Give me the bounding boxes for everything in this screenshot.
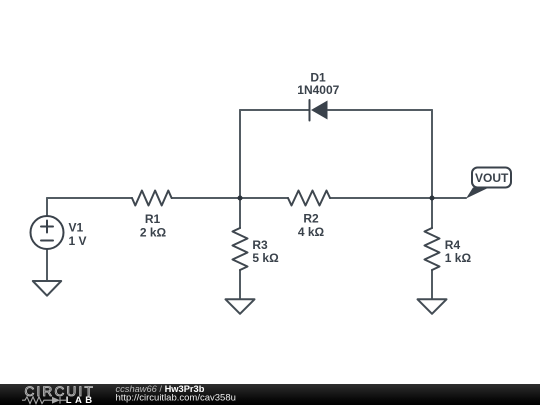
wire: R4 bottom to ground bbox=[431, 270, 433, 299]
svg-text:1 kΩ: 1 kΩ bbox=[445, 251, 472, 265]
svg-text:LAB: LAB bbox=[66, 395, 96, 405]
wire: main rail V1 to R1 left bbox=[47, 197, 132, 199]
ground for V1 bbox=[33, 281, 61, 296]
ground for R4 bbox=[418, 299, 447, 314]
net flag VOUT bbox=[466, 168, 511, 199]
junction node VOUT bbox=[430, 196, 435, 201]
wire: node VOUT to net flag bbox=[432, 197, 466, 199]
wire: R2 right to node VOUT bbox=[330, 197, 432, 199]
wire: top rail to D1 cathode bbox=[240, 109, 309, 111]
svg-text:4 kΩ: 4 kΩ bbox=[298, 225, 325, 239]
resistor R1 bbox=[132, 191, 172, 206]
junction node A bbox=[238, 196, 243, 201]
svg-text:VOUT: VOUT bbox=[475, 171, 509, 185]
svg-text:http://circuitlab.com/cav358u: http://circuitlab.com/cav358u bbox=[116, 392, 236, 403]
svg-text:R1: R1 bbox=[145, 212, 161, 226]
wire: V1 bottom to ground bbox=[46, 249, 48, 281]
svg-text:R4: R4 bbox=[445, 238, 461, 252]
svg-text:1 V: 1 V bbox=[69, 234, 87, 248]
svg-text:5 kΩ: 5 kΩ bbox=[252, 251, 279, 265]
wire: V1 top up to main rail bbox=[46, 198, 48, 216]
footer bar bbox=[0, 384, 540, 405]
svg-text:1N4007: 1N4007 bbox=[297, 83, 339, 97]
wire: node VOUT down to R4 top bbox=[431, 198, 433, 228]
svg-text:2 kΩ: 2 kΩ bbox=[140, 225, 167, 239]
wire: node A to R2 left bbox=[240, 197, 288, 199]
resistor R3 bbox=[233, 228, 248, 270]
svg-text:R3: R3 bbox=[252, 238, 268, 252]
svg-text:R2: R2 bbox=[303, 212, 319, 226]
wire: R1 right to node A bbox=[172, 197, 240, 199]
CircuitLab logo schematic motif bbox=[22, 397, 66, 404]
resistor R2 bbox=[288, 191, 330, 206]
diode D1 bbox=[310, 100, 328, 121]
wire: R3 bottom to ground bbox=[239, 270, 241, 299]
svg-text:V1: V1 bbox=[69, 221, 84, 235]
ground for R3 bbox=[226, 299, 255, 314]
wire: node A up left side of diode loop bbox=[239, 110, 241, 198]
voltage source V1 bbox=[31, 216, 64, 249]
resistor R4 bbox=[425, 228, 440, 270]
wire: right side of diode loop down to node VOUT bbox=[431, 110, 433, 198]
wire: node A down to R3 top bbox=[239, 198, 241, 228]
wire: D1 anode to top right corner bbox=[328, 109, 432, 111]
